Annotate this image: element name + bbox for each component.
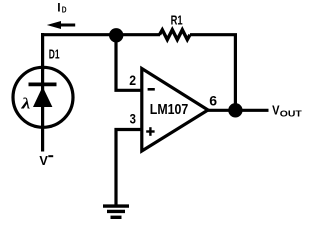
node: summing junction [109, 28, 123, 42]
label I_D [57, 0, 66, 14]
op-amp U1 LM107 [142, 69, 208, 152]
arrow: I_D current direction [47, 21, 75, 29]
wire: op-amp output to Vout [207, 109, 269, 112]
svg-text:V: V [39, 153, 48, 168]
photodiode D1 [13, 67, 73, 151]
ground [103, 206, 129, 217]
svg-text:2: 2 [129, 72, 136, 88]
svg-text:D1: D1 [49, 47, 60, 62]
label V- supply [39, 153, 53, 168]
label V_OUT [272, 104, 302, 119]
resistor R1 [160, 30, 191, 40]
wire: left vertical from top line down to photodiode [41, 33, 44, 70]
svg-text:R1: R1 [171, 12, 183, 27]
wire: resistor to right corner and down to output node [190, 35, 235, 111]
svg-text:OUT: OUT [280, 109, 302, 118]
wire: top feedback line left segment [41, 33, 160, 36]
svg-text:λ: λ [20, 95, 30, 112]
svg-text:I: I [57, 0, 60, 14]
svg-text:D: D [62, 5, 67, 15]
svg-text:3: 3 [130, 111, 136, 127]
svg-text:6: 6 [209, 93, 217, 109]
svg-text:LM107: LM107 [150, 102, 189, 118]
wire: junction down to inverting input [116, 35, 142, 90]
node: output junction [228, 103, 242, 117]
wire: non-inverting input to ground [116, 130, 142, 206]
